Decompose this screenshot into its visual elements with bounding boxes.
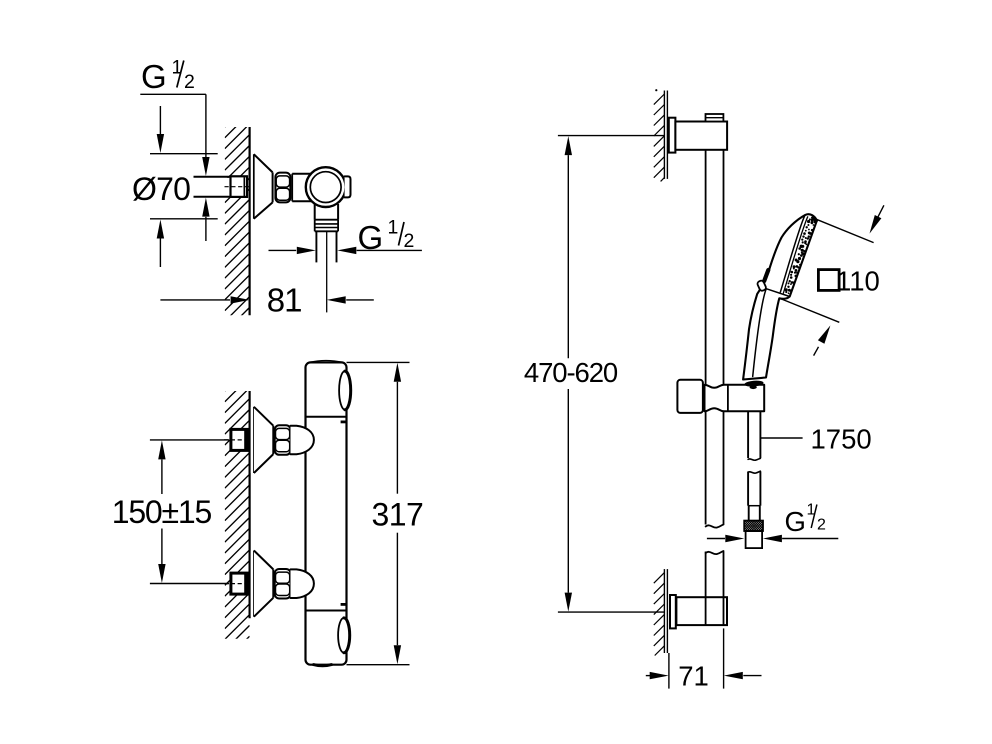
svg-text:150±15: 150±15: [112, 494, 212, 530]
svg-text:110: 110: [836, 265, 880, 296]
svg-text:71: 71: [678, 660, 709, 691]
svg-text:2: 2: [404, 230, 415, 252]
svg-text:317: 317: [371, 497, 423, 533]
svg-text:G: G: [358, 219, 384, 256]
svg-text:G: G: [141, 58, 167, 95]
svg-text:Ø70: Ø70: [132, 171, 190, 207]
svg-text:2: 2: [817, 517, 826, 534]
svg-text:1750: 1750: [811, 424, 872, 455]
svg-text:2: 2: [184, 71, 195, 93]
svg-text:G: G: [785, 506, 806, 537]
svg-text:1: 1: [388, 217, 399, 239]
svg-text:81: 81: [267, 282, 302, 319]
svg-text:470-620: 470-620: [524, 357, 618, 388]
